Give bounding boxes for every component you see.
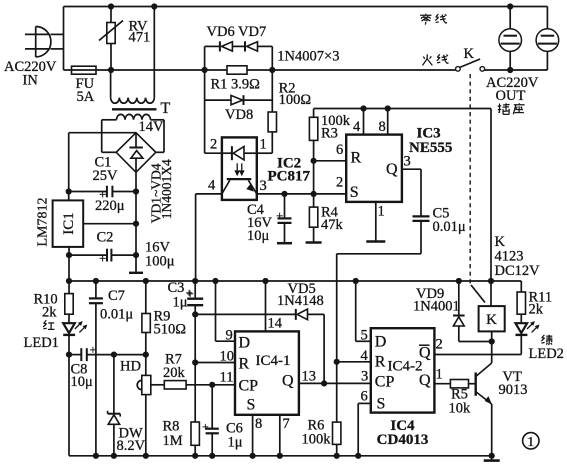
svg-text:25V: 25V — [93, 168, 119, 184]
svg-text:D: D — [375, 334, 387, 351]
svg-text:1: 1 — [378, 204, 385, 220]
svg-text:IC4-2: IC4-2 — [388, 359, 423, 375]
svg-text:3: 3 — [260, 178, 267, 194]
svg-text:6: 6 — [336, 142, 343, 158]
svg-text:3: 3 — [361, 369, 368, 385]
svg-text:R: R — [351, 150, 362, 167]
svg-text:8: 8 — [255, 416, 262, 432]
svg-text:47k: 47k — [321, 217, 344, 233]
svg-text:IC4-1: IC4-1 — [256, 353, 291, 369]
svg-text:CD4013: CD4013 — [377, 432, 429, 448]
svg-text:IN: IN — [23, 73, 39, 89]
svg-text:510Ω: 510Ω — [154, 322, 187, 338]
svg-text:10μ: 10μ — [247, 228, 270, 244]
svg-text:R1 3.9Ω: R1 3.9Ω — [211, 77, 261, 93]
svg-text:OUT: OUT — [496, 88, 526, 104]
svg-text:14: 14 — [268, 316, 283, 332]
svg-text:471: 471 — [129, 30, 151, 46]
svg-text:PC817: PC817 — [268, 169, 311, 185]
svg-text:1: 1 — [260, 137, 267, 153]
svg-text:R: R — [375, 354, 386, 371]
svg-text:VD8: VD8 — [225, 107, 253, 123]
svg-text:6: 6 — [361, 389, 368, 405]
svg-text:8.2V: 8.2V — [117, 438, 146, 454]
svg-text:100Ω: 100Ω — [279, 92, 312, 108]
svg-text:Q: Q — [282, 373, 294, 390]
svg-text:DC12V: DC12V — [495, 263, 541, 279]
svg-text:+: + — [276, 208, 283, 223]
svg-text:1N4001: 1N4001 — [413, 299, 460, 315]
svg-text:+: + — [187, 286, 194, 301]
svg-text:T: T — [161, 100, 171, 117]
svg-text:2: 2 — [336, 175, 343, 191]
svg-text:20k: 20k — [163, 365, 186, 381]
svg-text:CP: CP — [239, 378, 259, 395]
svg-text:D: D — [239, 335, 251, 352]
svg-text:S: S — [377, 396, 386, 413]
svg-text:VD6 VD7: VD6 VD7 — [207, 24, 267, 40]
svg-text:2k: 2k — [529, 302, 544, 318]
svg-text:100μ: 100μ — [145, 254, 175, 270]
svg-text:14V: 14V — [139, 119, 165, 135]
svg-text:CP: CP — [375, 374, 395, 391]
svg-text:LED2: LED2 — [529, 346, 564, 362]
svg-text:HD: HD — [120, 359, 141, 375]
svg-text:R: R — [239, 356, 250, 373]
svg-text:S: S — [247, 397, 256, 414]
svg-text:1N4001X4: 1N4001X4 — [159, 159, 174, 219]
svg-text:S: S — [350, 184, 359, 201]
svg-text:Q: Q — [386, 161, 398, 178]
svg-text:4: 4 — [353, 119, 361, 135]
svg-text:220μ: 220μ — [95, 198, 125, 214]
svg-text:100k: 100k — [302, 432, 332, 448]
svg-text:7: 7 — [283, 416, 290, 432]
svg-text:9013: 9013 — [499, 382, 528, 398]
svg-text:10μ: 10μ — [71, 374, 94, 390]
svg-text:9: 9 — [226, 328, 233, 344]
svg-text:3: 3 — [404, 154, 411, 170]
svg-text:R3: R3 — [321, 126, 338, 142]
svg-text:1N4007×3: 1N4007×3 — [277, 49, 339, 65]
svg-text:11: 11 — [220, 370, 234, 386]
svg-text:8: 8 — [379, 119, 386, 135]
svg-text:5: 5 — [361, 328, 368, 344]
svg-text:+: + — [90, 343, 97, 357]
svg-text:5A: 5A — [77, 89, 95, 105]
svg-text:0.01μ: 0.01μ — [100, 307, 133, 323]
svg-text:1N4148: 1N4148 — [277, 293, 324, 309]
svg-text:NE555: NE555 — [409, 140, 452, 156]
svg-text:4: 4 — [208, 178, 216, 194]
svg-text:13: 13 — [302, 369, 317, 385]
svg-text:1μ: 1μ — [173, 295, 188, 311]
svg-text:+: + — [202, 420, 209, 434]
svg-text:IC1: IC1 — [61, 212, 77, 235]
svg-text:0.01μ: 0.01μ — [433, 219, 466, 235]
svg-text:C7: C7 — [108, 288, 125, 304]
svg-text:1μ: 1μ — [228, 435, 243, 451]
svg-text:2k: 2k — [42, 305, 57, 321]
svg-text:LM7812: LM7812 — [36, 198, 51, 247]
svg-text:C2: C2 — [97, 230, 114, 246]
svg-text:+: + — [99, 251, 106, 266]
svg-text:1: 1 — [436, 367, 443, 383]
svg-text:LED1: LED1 — [24, 335, 59, 351]
svg-text:2: 2 — [210, 137, 217, 153]
svg-text:4: 4 — [361, 348, 369, 364]
svg-text:1: 1 — [527, 435, 534, 450]
svg-text:Q: Q — [419, 372, 431, 389]
svg-text:K: K — [486, 312, 497, 328]
svg-text:K: K — [464, 46, 475, 62]
svg-text:1M: 1M — [163, 433, 183, 449]
svg-text:2: 2 — [436, 337, 443, 353]
svg-text:10k: 10k — [449, 401, 472, 417]
svg-text:10: 10 — [220, 349, 235, 365]
